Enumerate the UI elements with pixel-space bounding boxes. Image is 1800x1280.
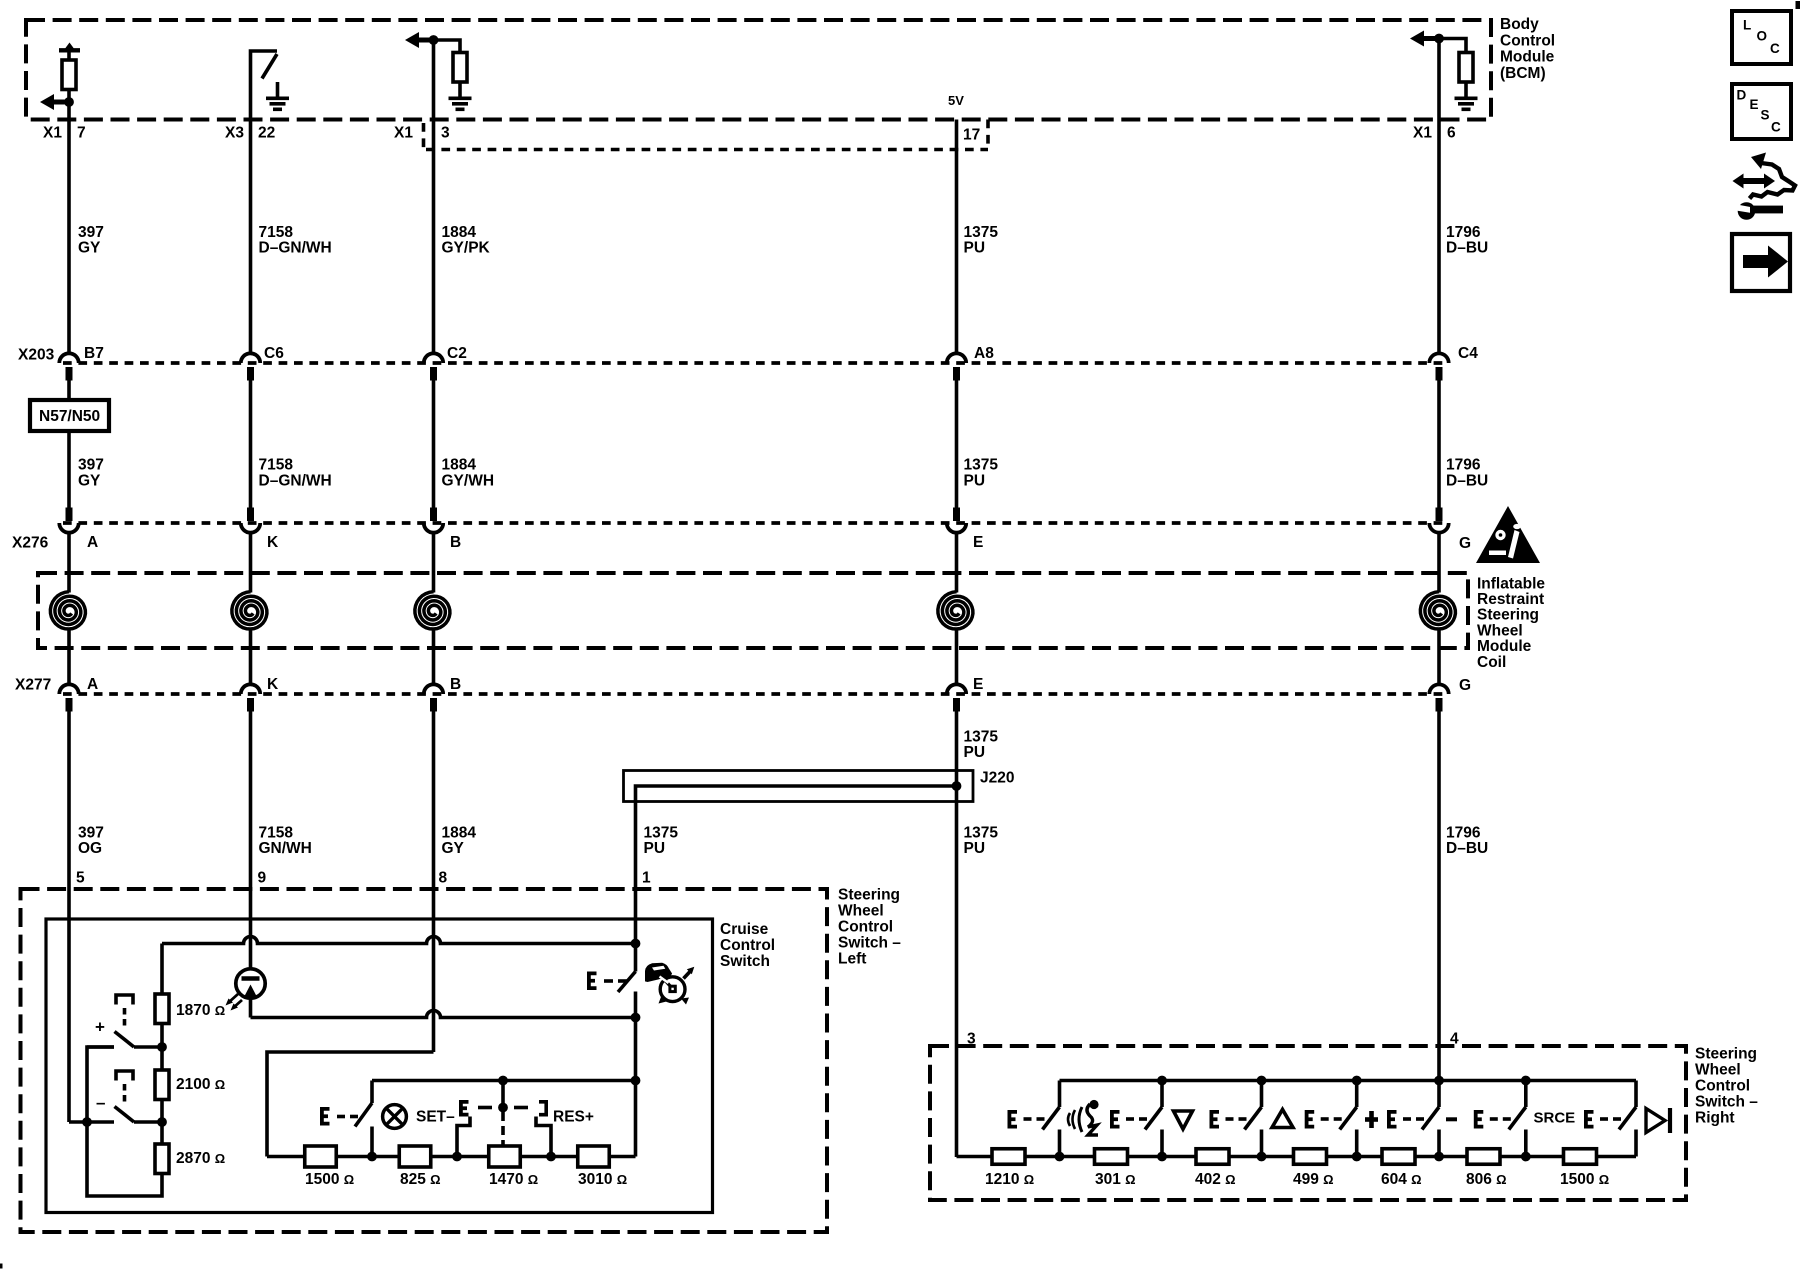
switch seek-down top stub	[1437, 1081, 1441, 1108]
splice J220 box	[624, 771, 974, 802]
resistor 402 ohm (right)	[1196, 1149, 1229, 1165]
connector X1 dotted outline	[422, 123, 426, 150]
wire into coil spiral K (top)	[249, 533, 253, 593]
svg-text:Steering: Steering	[838, 886, 900, 903]
wire pin8 elbow to resistor bus	[267, 1052, 434, 1157]
svg-text:O: O	[1757, 28, 1768, 43]
junction dot pin1/set-res bus	[631, 1076, 641, 1086]
switch voice E bracket	[1009, 1112, 1017, 1127]
resistor 806 ohm (right)	[1467, 1149, 1500, 1165]
junction dot at BCM pin X1-3	[429, 35, 439, 45]
svg-text:Switch –: Switch –	[838, 934, 901, 951]
svg-text:PU: PU	[964, 240, 986, 257]
svg-text:5: 5	[76, 869, 85, 886]
connector X276 pin E	[953, 508, 960, 522]
right switch top bus	[1060, 1079, 1637, 1083]
SET switch dashes	[337, 1115, 345, 1119]
voltage supply symbol at BCM pin X1-7	[64, 43, 75, 51]
svg-text:7: 7	[77, 124, 86, 141]
svg-text:GY: GY	[442, 840, 465, 857]
Body Control Module (BCM) dashed box	[26, 20, 1491, 120]
cruise on-off switch top stub	[634, 944, 638, 972]
wire BCM pin X1-6 to internal resistor	[1439, 39, 1466, 53]
connector X276 pin K	[247, 508, 254, 522]
switch to ground inside BCM at pin X3-22	[251, 51, 278, 354]
ground symbol for pin X1-6 resistor	[1464, 82, 1468, 97]
switch volume-up bottom stub	[1260, 1130, 1264, 1157]
svg-text:PU: PU	[644, 840, 666, 857]
wire pin8 down	[432, 919, 436, 1052]
resistor 2870 ohm	[155, 1144, 169, 1174]
switch seek-up top stub	[1355, 1081, 1359, 1108]
svg-text:E: E	[973, 676, 983, 693]
wire A8 to X276	[955, 381, 959, 508]
plus switch bracket	[116, 995, 133, 1005]
svg-text:Module: Module	[1477, 638, 1532, 655]
resistor to ground inside BCM (pin X1-3)	[453, 53, 467, 83]
resistor 825 ohm	[399, 1146, 431, 1167]
svg-text:PU: PU	[964, 840, 986, 857]
svg-text:Body: Body	[1500, 16, 1539, 33]
junction dot RES tap	[498, 1103, 508, 1113]
wire C6 to X276	[249, 381, 253, 508]
svg-text:X3: X3	[225, 124, 244, 141]
svg-text:3: 3	[441, 124, 450, 141]
switch mute actuator dashes	[1490, 1117, 1498, 1121]
wire out of coil spiral A (bottom)	[67, 631, 71, 685]
switch volume-down top stub	[1160, 1081, 1164, 1108]
junction dot top bus switch volume-down	[1157, 1076, 1167, 1086]
svg-text:D–BU: D–BU	[1446, 840, 1488, 857]
junction dot bottom bus volume-up	[1257, 1152, 1267, 1162]
switch voice top stub	[1058, 1081, 1062, 1108]
clockspring coil spiral K	[232, 592, 267, 629]
RES left leg	[457, 1117, 470, 1157]
splice/node box N57/N50	[30, 400, 109, 431]
junction dot RES tap/top bus	[498, 1076, 508, 1086]
switch volume-up blade	[1245, 1107, 1262, 1130]
svg-text:X277: X277	[15, 676, 51, 693]
RES right leg	[536, 1117, 551, 1157]
junction dot 1870/2100	[157, 1042, 167, 1052]
svg-text:D–GN/WH: D–GN/WH	[259, 240, 332, 257]
svg-text:8: 8	[439, 869, 448, 886]
page corner mark (bottom left)	[0, 1264, 3, 1269]
svg-text:+: +	[95, 1017, 105, 1036]
svg-text:Steering: Steering	[1477, 607, 1539, 624]
SET switch blade	[355, 1103, 372, 1127]
svg-text:Wheel: Wheel	[1477, 622, 1523, 639]
svg-text:E: E	[1750, 97, 1759, 112]
svg-text:1500 Ω: 1500 Ω	[305, 1171, 354, 1188]
junction dot pin1/top bus	[631, 939, 641, 949]
svg-text:Switch: Switch	[720, 953, 770, 970]
connector X277 pin B	[424, 684, 443, 694]
top bus wire (1870 top to pin1) with hops	[162, 937, 633, 944]
resistor inside BCM above pin X1-7	[62, 60, 76, 90]
svg-text:C2: C2	[447, 345, 467, 362]
clockspring coil spiral E	[938, 592, 973, 629]
svg-text:Right: Right	[1695, 1109, 1735, 1126]
Inflatable Restraint Steering Wheel Module Coil dashed box	[38, 573, 1468, 648]
svg-text:A8: A8	[974, 345, 994, 362]
seek down icon (minus)	[1446, 1117, 1457, 1121]
svg-text:1884: 1884	[442, 224, 477, 241]
Cruise Control Switch box	[46, 919, 713, 1213]
signal arrow at BCM pin X1-6	[1410, 31, 1424, 47]
switch seek-up actuator dashes	[1321, 1117, 1329, 1121]
svg-text:6: 6	[1447, 124, 1456, 141]
svg-text:B: B	[450, 534, 461, 551]
connector X277 pin A	[59, 684, 78, 694]
svg-text:X276: X276	[12, 534, 49, 551]
wire BCM pin X1-7 down to X203	[67, 90, 71, 354]
seek up icon (plus)	[1365, 1117, 1378, 1122]
svg-text:K: K	[267, 534, 279, 551]
wire N57/N50 to X276	[67, 431, 71, 508]
svg-text:604 Ω: 604 Ω	[1381, 1171, 1422, 1188]
source icon (next-track)	[1646, 1109, 1665, 1133]
svg-text:Control: Control	[1500, 32, 1555, 49]
svg-text:B: B	[450, 676, 461, 693]
wire BCM pin X1-3 to internal resistor	[434, 40, 461, 53]
svg-text:402 Ω: 402 Ω	[1195, 1171, 1236, 1188]
switch seek-down E bracket	[1389, 1112, 1397, 1127]
resistor 2100 ohm	[155, 1070, 169, 1100]
svg-text:1210 Ω: 1210 Ω	[985, 1171, 1034, 1188]
svg-text:E: E	[973, 534, 983, 551]
junction dot at BCM pin X1-7	[64, 97, 74, 107]
svg-text:Control: Control	[720, 937, 775, 954]
svg-text:7158: 7158	[259, 224, 294, 241]
svg-text:1: 1	[642, 869, 651, 886]
switch volume-down bottom stub	[1160, 1130, 1164, 1157]
svg-text:L: L	[1743, 17, 1751, 32]
svg-text:1500 Ω: 1500 Ω	[1560, 1171, 1609, 1188]
svg-text:5V: 5V	[948, 93, 964, 108]
svg-text:7158: 7158	[259, 457, 294, 474]
switch voice bottom stub	[1058, 1130, 1062, 1157]
switch seek-up bottom stub	[1355, 1130, 1359, 1157]
svg-text:GN/WH: GN/WH	[259, 840, 312, 857]
svg-text:Control: Control	[838, 918, 893, 935]
next page arrow box	[1732, 234, 1790, 291]
svg-text:1375: 1375	[964, 224, 999, 241]
svg-text:1796: 1796	[1446, 457, 1481, 474]
RES switch dashes right	[514, 1106, 528, 1110]
svg-text:X1: X1	[1413, 124, 1432, 141]
switch seek-up E bracket	[1307, 1112, 1315, 1127]
connector X203 pin C4	[1429, 353, 1448, 363]
wire into coil spiral G (top)	[1437, 533, 1441, 593]
cruise on-off switch E bracket	[589, 973, 597, 988]
svg-text:G: G	[1459, 535, 1471, 552]
svg-text:K: K	[267, 676, 279, 693]
wire X277-K to cruise switch pin 9	[249, 712, 253, 920]
ground symbol for pin X1-3 resistor	[458, 82, 462, 97]
svg-text:RES+: RES+	[553, 1108, 594, 1125]
svg-text:Switch –: Switch –	[1695, 1093, 1758, 1110]
junction dot common/minus	[82, 1117, 92, 1127]
svg-text:7158: 7158	[259, 824, 294, 841]
wire pin1 switch to bus	[634, 1018, 638, 1157]
resistor 301 ohm (right)	[1095, 1149, 1128, 1165]
svg-text:D–GN/WH: D–GN/WH	[259, 472, 332, 489]
svg-text:GY: GY	[78, 240, 101, 257]
junction dot RES left leg	[452, 1152, 462, 1162]
junction dot bottom bus seek-up	[1352, 1152, 1362, 1162]
wire C4 to X276	[1437, 381, 1441, 508]
svg-text:1375: 1375	[644, 824, 679, 841]
LOC reference box	[1732, 11, 1791, 64]
svg-text:C: C	[1771, 119, 1781, 134]
SET switch E bracket	[322, 1109, 330, 1124]
wire out of coil spiral K (bottom)	[249, 631, 253, 685]
volume down icon (triangle down)	[1174, 1111, 1193, 1129]
wire 2870 bottom loop	[87, 1047, 162, 1196]
junction dot J220	[952, 781, 962, 791]
LED cathode bar	[242, 976, 260, 980]
svg-text:C4: C4	[1458, 345, 1478, 362]
connector X277 pin G	[1429, 684, 1448, 694]
connector X276 pin A	[66, 508, 73, 522]
junction dot top bus switch volume-up	[1257, 1076, 1267, 1086]
minus switch left terminal	[69, 1120, 114, 1124]
cruise resistor chain bus	[267, 1155, 636, 1159]
svg-text:Coil: Coil	[1477, 654, 1506, 671]
switch seek-down blade	[1422, 1107, 1439, 1130]
svg-text:G: G	[1459, 677, 1471, 694]
wire corner 1870 top	[160, 944, 164, 995]
cruise control icon (car & speedometer)	[660, 977, 685, 1002]
voice command icon	[1068, 1113, 1070, 1126]
svg-text:GY: GY	[78, 472, 101, 489]
switch volume-down E bracket	[1112, 1112, 1120, 1127]
RES switch reverse bracket	[539, 1102, 546, 1115]
plus switch blade	[115, 1032, 135, 1048]
svg-text:1375: 1375	[964, 457, 999, 474]
wire BCM pin X1-3 down to X203	[432, 40, 436, 354]
svg-text:D: D	[1737, 87, 1747, 102]
plus switch right terminal	[134, 1045, 162, 1049]
wire 2100 to junction	[160, 1100, 164, 1145]
svg-text:GY/WH: GY/WH	[442, 472, 495, 489]
cruise on-off switch blade	[618, 972, 636, 993]
wire pin9 down to LED	[249, 919, 253, 968]
svg-text:Cruise: Cruise	[720, 921, 769, 938]
junction dot bottom bus seek-down	[1434, 1152, 1444, 1162]
RES tap dashed drop	[501, 1112, 505, 1121]
switch source top stub	[1634, 1081, 1638, 1108]
wire X277-B to cruise switch pin 8	[432, 712, 436, 920]
SET lamp symbol	[383, 1105, 407, 1129]
wire out of coil spiral G (bottom)	[1437, 631, 1441, 685]
RES switch E bracket	[461, 1102, 469, 1115]
svg-text:1796: 1796	[1446, 824, 1481, 841]
switch source actuator dashes	[1600, 1117, 1608, 1121]
minus switch blade	[115, 1107, 135, 1123]
junction dot bottom bus mute	[1521, 1152, 1531, 1162]
set/res top bus	[372, 1079, 636, 1083]
wire out of coil spiral E (bottom)	[955, 631, 959, 685]
clockspring coil spiral A	[50, 592, 85, 629]
resistor 1500 ohm (cruise)	[305, 1146, 337, 1167]
minus switch bracket	[116, 1071, 133, 1081]
DESC reference box	[1732, 84, 1791, 139]
junction dot LED wire/pin1	[631, 1013, 641, 1023]
switch mute bottom stub	[1524, 1130, 1528, 1157]
junction dot bottom bus voice	[1055, 1152, 1065, 1162]
switch volume-up top stub	[1260, 1081, 1264, 1108]
svg-text:SET–: SET–	[416, 1108, 455, 1125]
svg-text:C6: C6	[264, 345, 284, 362]
svg-text:–: –	[96, 1093, 105, 1112]
connector X277 dotted line	[63, 692, 1443, 696]
svg-text:PU: PU	[964, 472, 986, 489]
switch volume-up actuator dashes	[1226, 1117, 1234, 1121]
wire BCM pin X1-6 down to X203	[1437, 39, 1441, 354]
wire pin1 down	[634, 919, 638, 944]
wire B7 to N57/N50	[67, 381, 71, 401]
svg-text:A: A	[87, 676, 98, 693]
switch source blade	[1619, 1107, 1636, 1130]
signal arrow (to other circuit) at BCM pin X1-7	[40, 94, 54, 110]
switch volume-down actuator dashes	[1126, 1117, 1134, 1121]
svg-text:Steering: Steering	[1695, 1045, 1757, 1062]
svg-text:A: A	[87, 534, 98, 551]
wire X277-G down to right switch pin 4	[1437, 712, 1441, 1081]
plus switch left terminal	[87, 1045, 114, 1049]
wire into coil spiral E (top)	[955, 533, 959, 593]
LED bottom wire to pin1 with hop	[249, 1000, 253, 1018]
resistor 604 ohm (right)	[1382, 1149, 1415, 1165]
signal arrow at BCM pin X1-3	[405, 32, 419, 48]
svg-text:3010 Ω: 3010 Ω	[578, 1171, 627, 1188]
minus switch right terminal	[134, 1120, 162, 1124]
clockspring coil spiral G	[1420, 592, 1455, 629]
resistor 1500 ohm (right)	[1564, 1149, 1597, 1165]
switch source bottom stub	[1634, 1130, 1638, 1157]
LED circle	[236, 969, 265, 998]
svg-text:1884: 1884	[442, 824, 477, 841]
svg-text:Wheel: Wheel	[838, 902, 884, 919]
connector X203 pin C6	[241, 353, 260, 363]
svg-text:C: C	[1770, 41, 1780, 56]
connector X203 pin A8	[947, 353, 966, 363]
wire X277-E down to right switch pin 3	[955, 712, 959, 1158]
wire J220 branch down to pin 1	[634, 802, 638, 920]
wire pin5 down left side	[67, 919, 71, 1122]
switch mute E bracket	[1476, 1112, 1484, 1127]
svg-text:2100 Ω: 2100 Ω	[176, 1076, 225, 1093]
svg-text:Control: Control	[1695, 1077, 1750, 1094]
wiring diagram icon (arrows and wrench)	[1733, 174, 1744, 189]
connector X276 pin B	[430, 508, 437, 522]
svg-text:1870 Ω: 1870 Ω	[176, 1002, 225, 1019]
SET switch top corner	[370, 1081, 374, 1104]
switch volume-up E bracket	[1211, 1112, 1219, 1127]
resistor to ground inside BCM (pin X1-6)	[1459, 53, 1473, 83]
wire 1870 to junction	[160, 1024, 164, 1071]
clockspring coil spiral B	[415, 592, 450, 629]
right switch bottom resistor bus	[957, 1155, 1637, 1159]
svg-text:(BCM): (BCM)	[1500, 65, 1546, 82]
junction dot bottom bus volume-down	[1157, 1152, 1167, 1162]
switch source E bracket	[1586, 1112, 1594, 1127]
svg-text:SRCE: SRCE	[1534, 1110, 1576, 1127]
wire C2 to X276	[432, 381, 436, 508]
page corner mark (top right)	[1796, 1, 1800, 9]
RES tap wire up	[501, 1081, 505, 1108]
switch seek-up blade	[1340, 1107, 1357, 1130]
svg-text:825 Ω: 825 Ω	[400, 1171, 441, 1188]
resistor 499 ohm (right)	[1294, 1149, 1327, 1165]
wire X277-A to cruise switch pin 5	[67, 712, 71, 920]
switch seek-down bottom stub	[1437, 1130, 1441, 1157]
LED arrows	[228, 994, 238, 1003]
svg-text:1884: 1884	[442, 457, 477, 474]
cruise on-off switch bottom stub	[634, 992, 638, 1018]
svg-text:D–BU: D–BU	[1446, 472, 1488, 489]
svg-text:1470 Ω: 1470 Ω	[489, 1171, 538, 1188]
svg-text:9: 9	[258, 869, 267, 886]
resistor 1870 ohm	[155, 994, 169, 1024]
svg-text:22: 22	[258, 124, 275, 141]
volume up icon (triangle up)	[1272, 1110, 1293, 1128]
switch mute blade	[1509, 1107, 1526, 1130]
switch volume-down blade	[1145, 1107, 1162, 1130]
junction dot RES right leg	[546, 1152, 556, 1162]
SET switch bottom stub	[370, 1127, 374, 1157]
switch mute top stub	[1524, 1081, 1528, 1108]
resistor 1470 ohm	[489, 1146, 521, 1167]
svg-text:Restraint: Restraint	[1477, 591, 1544, 608]
svg-text:Inflatable: Inflatable	[1477, 575, 1545, 592]
connector X277 pin K	[241, 684, 260, 694]
wire into coil spiral B (top)	[432, 533, 436, 593]
switch voice blade	[1043, 1107, 1060, 1130]
svg-text:PU: PU	[964, 744, 986, 761]
svg-text:499 Ω: 499 Ω	[1293, 1171, 1334, 1188]
svg-text:397: 397	[78, 224, 104, 241]
junction dot at BCM pin X1-6	[1434, 34, 1444, 44]
svg-text:S: S	[1761, 107, 1770, 122]
RES switch dashes left	[478, 1106, 492, 1110]
svg-text:2870 Ω: 2870 Ω	[176, 1150, 225, 1167]
svg-text:Wheel: Wheel	[1695, 1061, 1741, 1078]
Steering Wheel Control Switch - Left dashed box	[21, 889, 828, 1232]
connector X203 dotted line	[63, 361, 1443, 365]
svg-text:D–BU: D–BU	[1446, 240, 1488, 257]
Steering Wheel Control Switch - Right dashed box	[930, 1046, 1686, 1200]
svg-text:397: 397	[78, 457, 104, 474]
svg-text:J220: J220	[980, 769, 1014, 786]
resistor 3010 ohm	[578, 1146, 610, 1167]
resistor 1210 ohm (right)	[992, 1149, 1025, 1165]
svg-text:17: 17	[963, 126, 980, 143]
connector X277 pin E	[947, 684, 966, 694]
ground symbol inside BCM	[276, 82, 280, 97]
wire 5V from BCM down to X203	[955, 120, 959, 354]
connector X203 pin B7	[59, 353, 78, 363]
junction dot top bus switch seek-down	[1434, 1076, 1444, 1086]
cruise on-off switch dashes	[604, 979, 613, 983]
svg-text:B7: B7	[84, 345, 104, 362]
connector X203 pin C2	[424, 353, 443, 363]
svg-text:Left: Left	[838, 950, 866, 967]
svg-text:1796: 1796	[1446, 224, 1481, 241]
junction dot top bus switch seek-up	[1352, 1076, 1362, 1086]
